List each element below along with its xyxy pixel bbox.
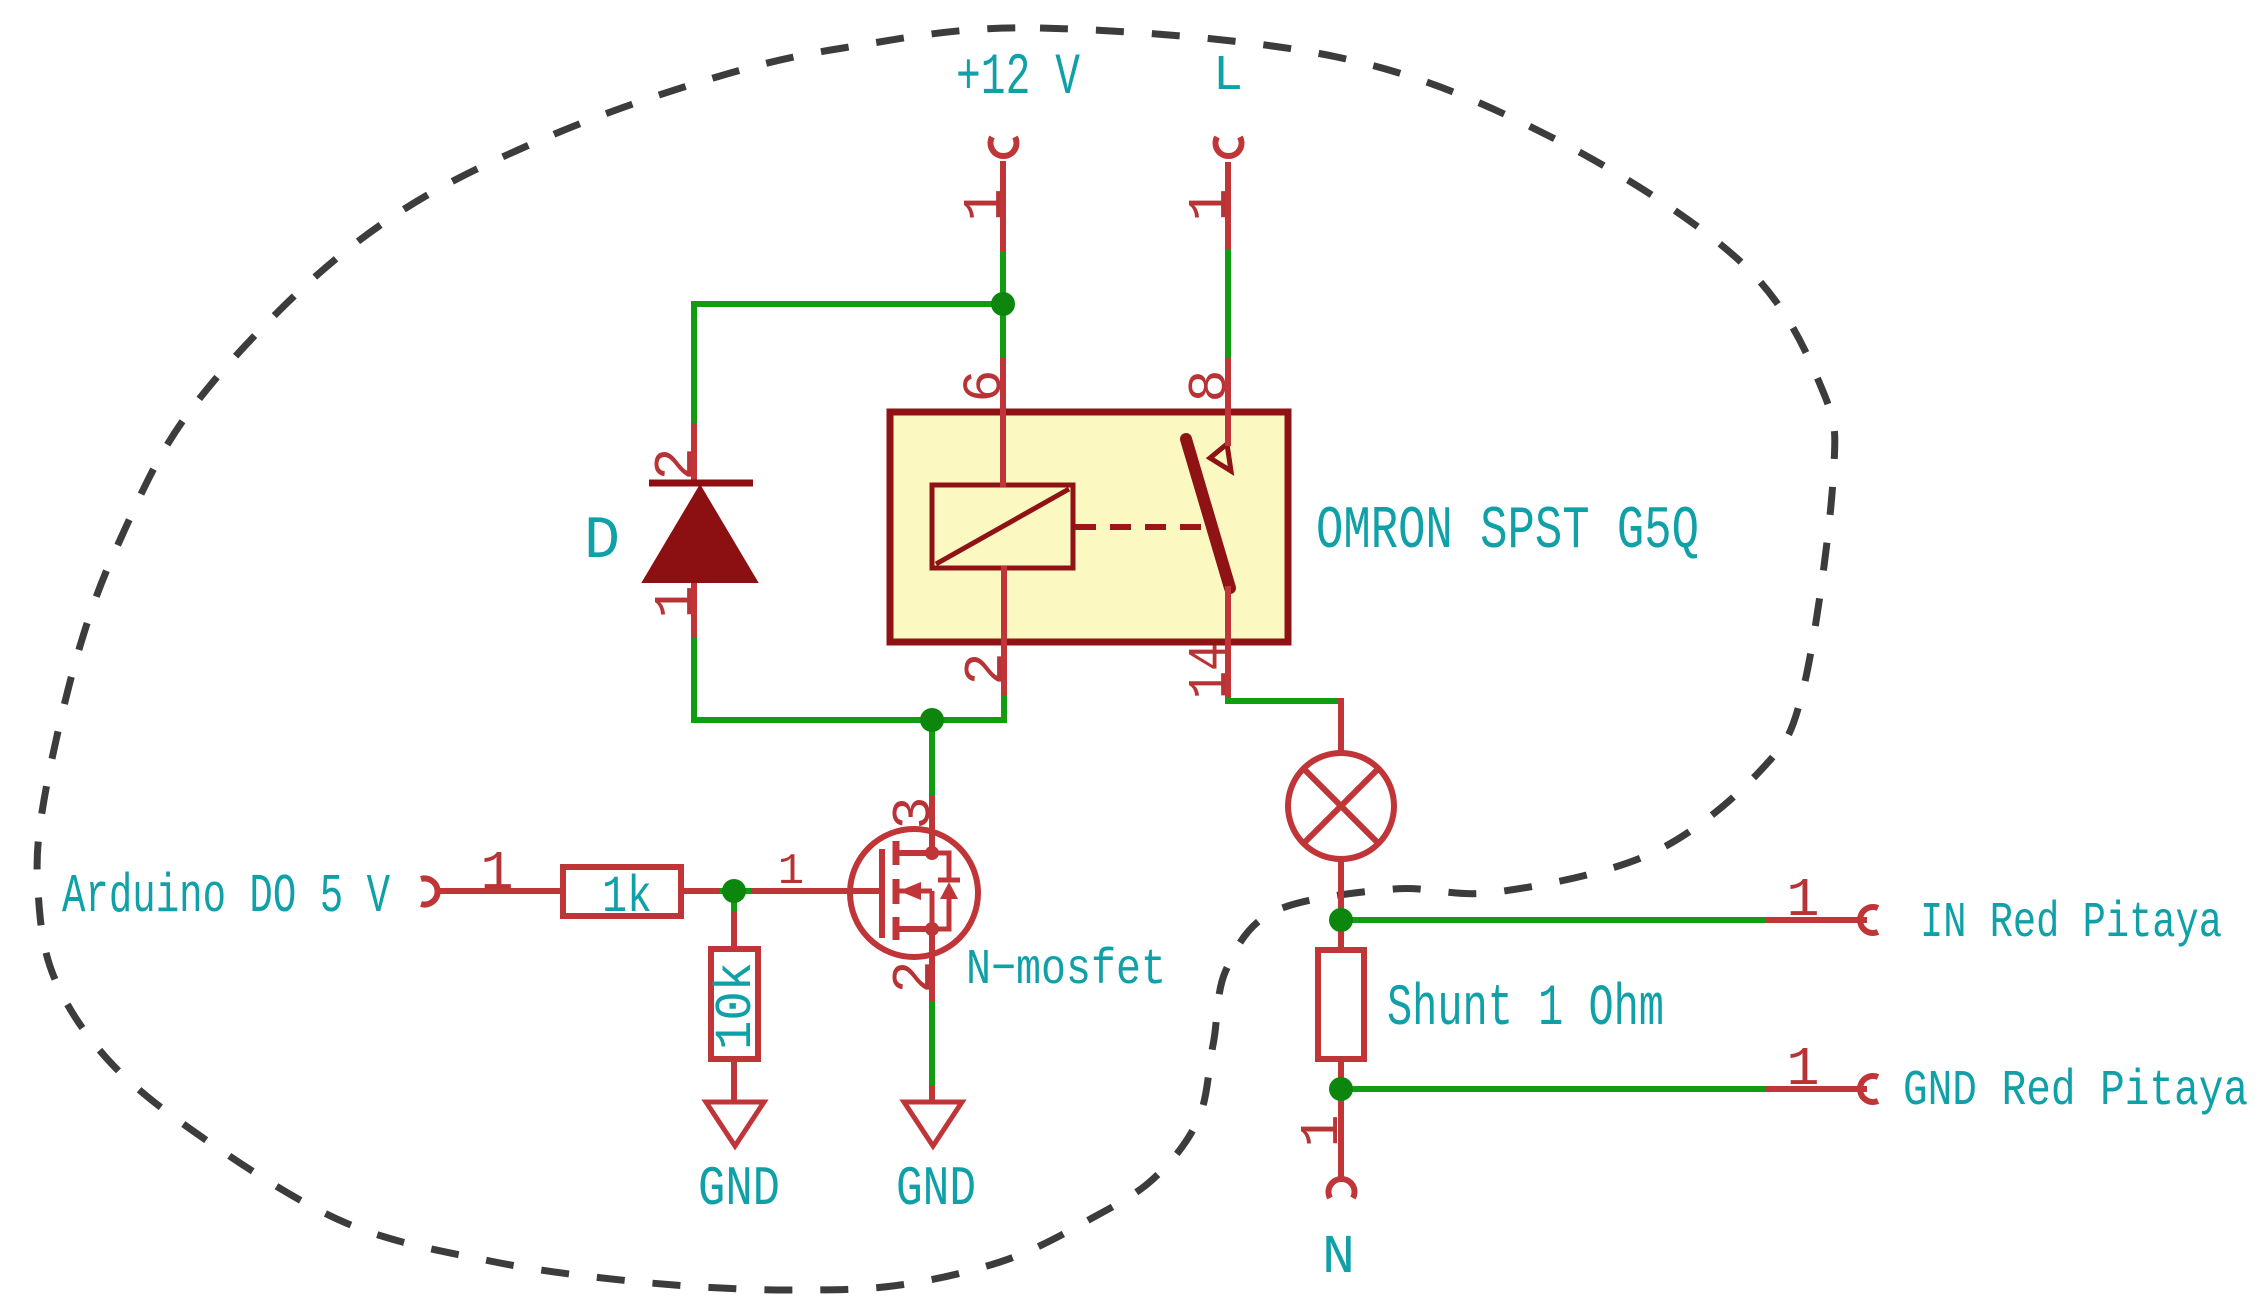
svg-text:1: 1 bbox=[645, 585, 708, 618]
svg-text:L: L bbox=[1213, 48, 1243, 105]
svg-text:GND Red Pitaya: GND Red Pitaya bbox=[1903, 1063, 2248, 1120]
wire green L vertical bbox=[1225, 248, 1231, 358]
pin red mosfet source bbox=[929, 929, 935, 1001]
resistor shunt bbox=[1318, 950, 1364, 1059]
resistor 1k bbox=[563, 867, 681, 916]
wire green mosfet drain bbox=[929, 718, 935, 796]
svg-text:6: 6 bbox=[954, 369, 1017, 402]
svg-text:1: 1 bbox=[1786, 869, 1819, 932]
svg-text:1: 1 bbox=[480, 842, 513, 905]
junction node drain bus bbox=[920, 708, 944, 732]
wire red lamp bottom bbox=[1338, 858, 1344, 922]
pin red mosfet source to ground bbox=[929, 1086, 935, 1104]
wire green GND Red Pitaya horizontal bbox=[1341, 1086, 1766, 1092]
mosfet body diode bbox=[932, 853, 960, 929]
svg-text:8: 8 bbox=[1179, 369, 1242, 402]
pin red shunt top bbox=[1338, 918, 1344, 951]
wire red GND Red Pitaya lead bbox=[1765, 1086, 1867, 1092]
svg-text:1: 1 bbox=[954, 188, 1017, 221]
pin red relay pin 14 bbox=[1225, 586, 1231, 697]
ground symbol left bbox=[706, 1102, 764, 1146]
wire red N lead bbox=[1338, 1089, 1344, 1180]
pin red gate lead bbox=[751, 888, 884, 894]
svg-text:2: 2 bbox=[955, 652, 1018, 685]
svg-text:N−mosfet: N−mosfet bbox=[966, 942, 1166, 999]
wire green relay pin14 elbow bbox=[1228, 696, 1341, 701]
junction node gate divider bbox=[722, 879, 746, 903]
resistor 10k bbox=[711, 949, 758, 1059]
svg-text:1: 1 bbox=[1179, 188, 1242, 221]
junction node +12V bbox=[991, 292, 1015, 316]
mosfet source link bbox=[896, 926, 932, 932]
transistor Q1 N-mosfet body bbox=[850, 829, 978, 957]
svg-text:3: 3 bbox=[883, 796, 946, 829]
junction node shunt N bbox=[1329, 1077, 1353, 1101]
connector Arduino bbox=[421, 879, 438, 905]
wire green +12V vertical above junction bbox=[1000, 250, 1006, 359]
wire green mosfet source bbox=[929, 1000, 935, 1089]
svg-text:1: 1 bbox=[1291, 1114, 1354, 1147]
wire green relay pin2 stub bbox=[1001, 694, 1007, 723]
svg-text:1: 1 bbox=[1786, 1038, 1819, 1101]
connector L bbox=[1216, 137, 1242, 156]
junction node lamp shunt bbox=[1329, 908, 1353, 932]
mosfet gate bar bbox=[879, 849, 885, 938]
svg-text:Arduino DO 5 V: Arduino DO 5 V bbox=[62, 865, 390, 928]
mosfet bulk arrow bbox=[896, 882, 932, 929]
wire green +12V bus horizontal bbox=[694, 301, 1003, 307]
pin red relay pin 8 bbox=[1225, 357, 1231, 446]
pin red relay pin 6 bbox=[1000, 358, 1006, 487]
wire red Arduino input bbox=[436, 888, 563, 894]
svg-text:1: 1 bbox=[778, 847, 804, 897]
pin red shunt bottom bbox=[1338, 1058, 1344, 1092]
relay actuator dashed link bbox=[1075, 524, 1205, 530]
enclosure dashed outline bbox=[37, 28, 1835, 1290]
pin red 1k right to junction bbox=[681, 888, 719, 894]
svg-text:14: 14 bbox=[1179, 643, 1242, 699]
ground symbol right bbox=[904, 1102, 962, 1146]
svg-text:2: 2 bbox=[645, 447, 708, 480]
pin red diode anode lead bbox=[691, 582, 697, 638]
connector GND Red Pitaya bbox=[1860, 1076, 1878, 1102]
svg-text:IN Red Pitaya: IN Red Pitaya bbox=[1920, 895, 2222, 952]
connector +12V bbox=[991, 137, 1017, 156]
wire green gate junction stubs bbox=[718, 891, 752, 913]
wire green bottom bus horizontal bbox=[694, 717, 1004, 723]
relay U1 body bbox=[890, 412, 1288, 642]
wire red IN Red Pitaya lead bbox=[1765, 917, 1867, 923]
svg-text:GND: GND bbox=[896, 1157, 976, 1221]
mosfet channel segments bbox=[893, 841, 900, 940]
svg-text:2: 2 bbox=[883, 960, 946, 993]
connector N bbox=[1329, 1179, 1355, 1198]
connector IN Red Pitaya bbox=[1860, 907, 1878, 933]
pin red relay pin 2 bbox=[1001, 566, 1007, 695]
svg-text:OMRON SPST G5Q: OMRON SPST G5Q bbox=[1316, 498, 1699, 566]
pin red diode cathode lead bbox=[691, 423, 697, 484]
mosfet internal nodes bbox=[925, 846, 939, 936]
pin red 10k bottom bbox=[731, 1058, 737, 1102]
pin red 10k top bbox=[731, 912, 737, 950]
wire green diode top vertical bbox=[691, 301, 697, 424]
diode D body bbox=[643, 486, 757, 582]
relay switch lever bbox=[1186, 439, 1230, 588]
pin red L bbox=[1225, 162, 1231, 249]
svg-text:+12 V: +12 V bbox=[956, 46, 1080, 111]
wire red lamp top bbox=[1338, 698, 1344, 754]
pin red +12V bbox=[1000, 161, 1006, 251]
wire green diode bottom vertical bbox=[691, 637, 697, 723]
svg-text:Shunt 1 Ohm: Shunt 1 Ohm bbox=[1387, 977, 1664, 1042]
pin red mosfet drain bbox=[929, 795, 935, 853]
svg-text:N: N bbox=[1322, 1226, 1355, 1289]
svg-text:GND: GND bbox=[698, 1157, 780, 1221]
lamp bbox=[1288, 753, 1394, 859]
svg-text:1k: 1k bbox=[602, 868, 652, 927]
mosfet drain link bbox=[896, 850, 932, 856]
svg-text:D: D bbox=[584, 508, 620, 576]
diode D cathode bar bbox=[649, 480, 753, 487]
relay fixed contact pin 8 bbox=[1210, 444, 1231, 471]
svg-text:10k: 10k bbox=[707, 962, 766, 1050]
relay coil bbox=[932, 485, 1073, 568]
wire green IN Red Pitaya horizontal bbox=[1341, 917, 1766, 923]
